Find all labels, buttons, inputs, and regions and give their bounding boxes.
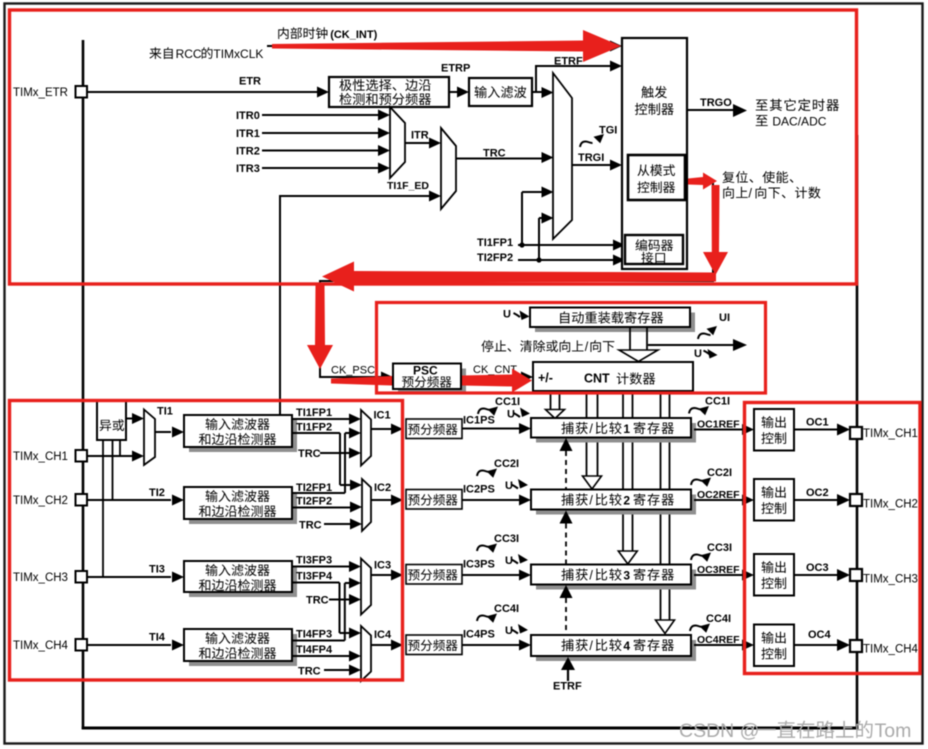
event UI [698,312,730,339]
block: auto-reload register ARR [530,308,695,333]
wire ITR [405,138,441,149]
mux TI1 select [144,410,155,466]
svg-text:CC1I: CC1I [495,396,520,408]
wire OC2REF [694,495,754,506]
svg-text:+/-: +/- [538,371,553,385]
wire OC2 [794,494,850,506]
svg-text:CK_PSC: CK_PSC [331,365,375,377]
svg-text:TRGO: TRGO [700,97,732,109]
event CC3I left [477,533,519,553]
wire ETRP [449,87,469,98]
svg-text:TI4: TI4 [149,632,166,644]
svg-text:OC1: OC1 [806,417,829,429]
dashed capture event arrow 2-3 [560,511,573,565]
svg-text:TIMx_CH4: TIMx_CH4 [13,640,69,652]
label ETR [239,76,261,88]
svg-text:TI1F_ED: TI1F_ED [387,180,429,192]
label IC1 [374,410,391,422]
wire TRC row4 [298,665,361,678]
pin TIMx_CH1 right [850,427,918,440]
wire IC4PS [462,640,531,651]
block: capture/compare register 4 [531,635,696,661]
wire U event right [648,339,747,351]
wire TI1FP1 to IC1 mux [292,414,361,425]
block: capture/compare register 2 [531,490,696,515]
wire XOR output to TI1 mux [126,413,144,424]
red annotation box middle [377,303,766,394]
svg-text:ETR: ETR [239,76,261,88]
svg-text:TI3FP4: TI3FP4 [296,571,333,583]
label TI4 [149,632,166,644]
label ETRF bottom [553,681,582,693]
svg-text:U: U [503,309,511,321]
mux IC1 select [361,410,371,466]
label IC1PS [463,415,495,427]
red arrow CK_INT to trigger controller [272,30,621,62]
wire TI3FP3 to IC3 mux [292,561,361,572]
label ITR0 [236,110,260,122]
svg-text:2: 2 [623,494,630,508]
label TRC top [483,148,506,160]
wire TI4FP3 up to IC3 mux [292,578,361,641]
svg-text:ETRF: ETRF [553,681,582,693]
wire TI4 [87,640,184,651]
wire IC3 [371,570,403,581]
svg-text:TIMx_ETR: TIMx_ETR [13,87,68,99]
block: output control 1 [754,409,794,451]
block: IC3 prescaler [406,565,462,585]
label ETRP [441,63,470,75]
pin TIMx_CH2 left [13,494,87,507]
svg-text:OC3: OC3 [806,562,829,574]
wire TRGI [572,160,622,171]
wire TI1FP1 to encoder [518,187,625,251]
label IC2PS [463,484,495,496]
pin TIMx_CH3 left [13,571,87,584]
svg-text:TI1FP1: TI1FP1 [477,237,513,249]
block U1: trigger controller [622,38,687,269]
event CC2I right [691,467,732,487]
pin TIMx_CH4 left [13,639,87,652]
wire TI2FP2 to encoder [518,213,625,266]
svg-text:TRC: TRC [299,520,322,532]
svg-text:PSC: PSC [413,364,438,378]
label TI4FP4 [296,644,333,656]
label TI1FP2 [296,422,332,434]
TIMx block boundary right vertical line [856,135,859,729]
svg-text:ITR0: ITR0 [236,110,260,122]
wire ETR [87,87,329,98]
wire ITR2 [262,145,390,156]
event U right [694,348,718,360]
block: input filter edge detector CH1 [184,415,297,452]
block: output control 2 [754,479,794,521]
label IC3PS [463,559,495,571]
svg-text:DAC/ADC: DAC/ADC [772,115,826,129]
block: polarity selection edge detector prescaler [329,77,449,107]
dashed capture event arrow 3-4 [560,585,573,634]
block: IC4 prescaler [406,635,462,655]
mux IC3 select [361,559,371,615]
svg-text:ITR: ITR [411,130,429,142]
wire TI2FP2 to IC2 mux [292,502,362,513]
wire XOR to CH1 [119,440,121,456]
svg-text:CC2I: CC2I [494,458,519,470]
block: CNT counter [533,362,693,391]
event CC2I left [477,458,519,478]
label IC3 [374,560,391,572]
pin TIMx_CH1 left [13,450,87,463]
label TI3FP4 [296,571,333,583]
hollow arrow CNT to capture4 [656,391,675,634]
svg-text:4: 4 [623,639,630,653]
wire ITR3 [262,163,390,174]
event U row3 [505,554,528,567]
label ITR2 [236,146,260,158]
wire TI2 [87,495,184,506]
label TI1FP1 top [477,237,513,249]
svg-text:ITR2: ITR2 [236,146,260,158]
wire OC4 [794,639,850,651]
label IC4PS [463,629,495,641]
block: PSC prescaler [393,364,466,395]
svg-text:1: 1 [623,422,630,436]
svg-text:TI4FP3: TI4FP3 [296,629,332,641]
label TI3FP3 [296,555,332,567]
red arrow long left to CK_PSC elbow [322,262,716,292]
dashed capture event arrow 1-2 [560,438,573,489]
wire OC1REF [694,424,754,435]
svg-text:TI1FP2: TI1FP2 [296,422,332,434]
red arrow into CNT counter segment A [331,376,392,386]
svg-text:CSDN @: CSDN @ [679,720,759,742]
svg-text:CC3I: CC3I [494,533,519,545]
pin TIMx_ETR [13,86,87,99]
svg-text:TIMx_CH3: TIMx_CH3 [13,572,68,584]
wire TI1F_ED [280,191,441,417]
wire IC1PS [462,423,531,434]
wire TRC to trigger mux [456,152,554,163]
block: IC2 prescaler [406,490,462,510]
pin TIMx_CH4 right [850,640,919,656]
label ITR1 [236,128,260,140]
svg-text:/: / [589,494,593,508]
label OC2 [806,487,829,499]
svg-text:TI2FP2: TI2FP2 [296,496,332,508]
hollow arrow CNT to capture2 [583,391,602,489]
svg-text:(CK_INT): (CK_INT) [330,29,377,41]
wire IC1 [371,424,403,435]
wire TI1 [155,427,184,438]
wire OC3REF [694,570,754,581]
svg-text:TIMx_CH4: TIMx_CH4 [863,644,919,656]
block: output control 3 [754,554,794,596]
red annotation box bottom-right [745,403,921,674]
label IC2 [374,482,391,494]
wire TRGO [687,104,747,117]
watermark CSDN [679,720,911,742]
wire CK_INT [267,41,622,52]
svg-text:CK_CNT: CK_CNT [473,364,517,376]
event CC4I right [690,613,731,633]
red annotation box bottom-left [10,401,403,681]
label OC1REF [697,419,740,431]
event U row4 [505,624,528,637]
svg-text:TIMx_CH1: TIMx_CH1 [863,428,918,440]
mux IC2 select [362,479,371,531]
wire TI4FP4 to IC4 mux [292,651,361,662]
wire CH1 to mux [87,451,144,462]
svg-text:TRC: TRC [298,666,321,678]
svg-text:TI3FP3: TI3FP3 [296,555,332,567]
label OC4 [808,629,832,641]
svg-text:TI3: TI3 [149,564,165,576]
hollow arrow CNT to capture3 [618,391,637,564]
svg-text:TRC: TRC [298,448,321,460]
svg-text:ITR1: ITR1 [236,128,260,140]
label TI1 [157,406,173,418]
svg-text:TI2FP1: TI2FP1 [296,482,332,494]
svg-text:/: / [589,639,593,653]
label OC4REF [697,634,740,646]
svg-text:RCC: RCC [176,47,202,61]
svg-text:IC1PS: IC1PS [463,415,495,427]
svg-text:TRC: TRC [306,595,329,607]
label to other timers / DAC ADC [756,99,839,129]
red arrow down to CK_PSC [307,284,333,369]
wire IC3PS [462,570,531,581]
svg-text:3: 3 [623,569,630,583]
label TI4FP3 [296,629,332,641]
red arrow down from slave mode controller [703,185,728,275]
svg-text:IC3PS: IC3PS [463,559,495,571]
svg-text:CC4I: CC4I [494,603,519,615]
block: encoder interface [625,235,683,264]
label TI2FP2 row2 [296,496,332,508]
event CC4I left [477,603,519,623]
svg-text:TI1: TI1 [157,406,173,418]
block: capture/compare register 1 [531,418,696,443]
block: IC1 prescaler [406,419,462,439]
block: input filter (ETR) [469,78,532,106]
wire OC4REF [694,640,754,651]
label ITR3 [236,163,260,175]
pin TIMx_CH3 right [850,569,918,586]
svg-text:TRGI: TRGI [578,152,604,164]
TIMx block boundary bottom line [82,727,859,730]
wire TI2FP1 up to IC1 mux [292,428,361,494]
svg-text:ETRP: ETRP [441,63,470,75]
label OC2REF [697,489,740,501]
label TI1F_ED [387,180,429,192]
wire TRC row2 [299,519,362,532]
svg-text:TI1FP1: TI1FP1 [296,407,332,419]
svg-text:CC3I: CC3I [707,542,732,554]
mux IC4 select [361,626,371,681]
svg-text:U: U [694,348,702,360]
svg-text:TGI: TGI [599,125,617,137]
block: XOR [97,400,126,440]
hollow arrow ARR to CNT [619,327,658,362]
wire ETRF into capture4 [561,657,575,681]
wire OC3 [794,569,850,581]
event U row2 [505,479,528,492]
wire CK_CNT [461,372,533,383]
svg-text:IC2PS: IC2PS [463,484,495,496]
red arrow slave mode controller out [688,173,717,190]
red arrow into CNT counter segment B [462,369,532,393]
svg-text:/: / [589,569,593,583]
block: input filter edge detector CH3 [184,561,297,597]
hollow arrow CNT to capture1 [546,391,565,419]
wire TI3 [87,572,184,583]
label TRGO [700,97,732,109]
wire OC1 [794,424,850,436]
svg-text:U: U [505,555,513,567]
svg-text:U: U [505,625,513,637]
label IC4 [374,629,392,641]
label internal clock CK_INT [278,27,377,41]
svg-text:IC4PS: IC4PS [463,629,495,641]
label CK_PSC [331,365,375,377]
svg-text:U: U [507,409,515,421]
svg-text:IC3: IC3 [374,560,391,572]
label TI2FP2 top [477,252,513,264]
svg-text:TIMx_CH2: TIMx_CH2 [863,499,918,511]
event CC1I right [689,396,730,416]
label from RCC TIMxCLK [149,47,263,61]
label stop clear updown [481,340,614,354]
wire TI3FP4 down to IC4 mux [292,583,361,639]
label TI2 [149,487,165,499]
svg-text:CC1I: CC1I [705,396,730,408]
block: slave mode controller [628,155,685,200]
event CC1I left [478,396,520,416]
svg-text:/: / [589,422,593,436]
svg-text:Tom: Tom [875,720,912,742]
wire slave mode controller to CK_PSC path [320,181,714,383]
svg-text:ETRF: ETRF [554,56,583,68]
svg-text:OC2: OC2 [806,487,829,499]
wire TRC row1 [298,448,361,461]
svg-text:CC4I: CC4I [706,613,731,625]
block: input filter edge detector CH4 [184,629,297,666]
svg-text:/: / [749,187,753,201]
mux ITR select [390,107,405,178]
label reset enable updown count [722,171,820,201]
label ETRF [554,56,583,68]
wire TRC row3 [306,594,361,607]
red annotation box top [10,10,857,284]
svg-text:TIMx_CH2: TIMx_CH2 [13,495,68,507]
svg-text:TI2: TI2 [149,487,165,499]
svg-text:TRC: TRC [483,148,506,160]
wire IC2 [371,495,403,506]
event TGI [580,125,617,148]
wire TI1FP2 down to IC2 mux [292,433,362,491]
svg-text:U: U [505,480,513,492]
svg-text:IC4: IC4 [374,629,392,641]
pin TIMx_CH2 right [850,494,918,511]
wire ITR0 [262,110,390,121]
label TI3 [149,564,165,576]
svg-text:IC2: IC2 [374,482,391,494]
label TI1FP1 [296,407,332,419]
svg-text:IC1: IC1 [374,410,391,422]
label TI2FP1 [296,482,332,494]
svg-text:CC2I: CC2I [707,467,732,479]
mux TRC select [441,128,456,209]
label ITR [411,130,429,142]
label OC3REF [697,564,740,576]
event U row1 [507,408,530,421]
label TRGI [578,152,604,164]
label CK_CNT [473,364,517,376]
event U into ARR [503,309,530,321]
svg-text:/: / [585,340,589,354]
svg-text:UI: UI [719,312,730,324]
mux TRGI select [553,73,572,239]
wire ITR1 [262,128,390,139]
wire IC2PS [462,495,531,506]
event CC3I right [691,542,732,562]
TIMx block boundary left vertical line [82,40,85,729]
svg-text:OC4: OC4 [808,629,832,641]
wire XOR to CH3 [102,440,104,577]
svg-text:ITR3: ITR3 [236,163,260,175]
svg-text:TIMx_CH1: TIMx_CH1 [13,451,68,463]
label OC3 [806,562,829,574]
svg-text:TIMxCLK: TIMxCLK [213,47,263,61]
block: output control 4 [754,625,794,667]
label OC1 [806,417,829,429]
svg-text:TI4FP4: TI4FP4 [296,644,333,656]
svg-text:TIMx_CH3: TIMx_CH3 [863,574,918,586]
block: input filter edge detector CH2 [184,487,297,524]
wire IC4 [371,640,403,651]
svg-text:TI2FP2: TI2FP2 [477,252,513,264]
wire XOR to CH2 [112,440,114,500]
block: capture/compare register 3 [531,565,696,590]
svg-text:CNT: CNT [584,372,610,386]
wire ETRF to trigger controller [532,61,622,99]
